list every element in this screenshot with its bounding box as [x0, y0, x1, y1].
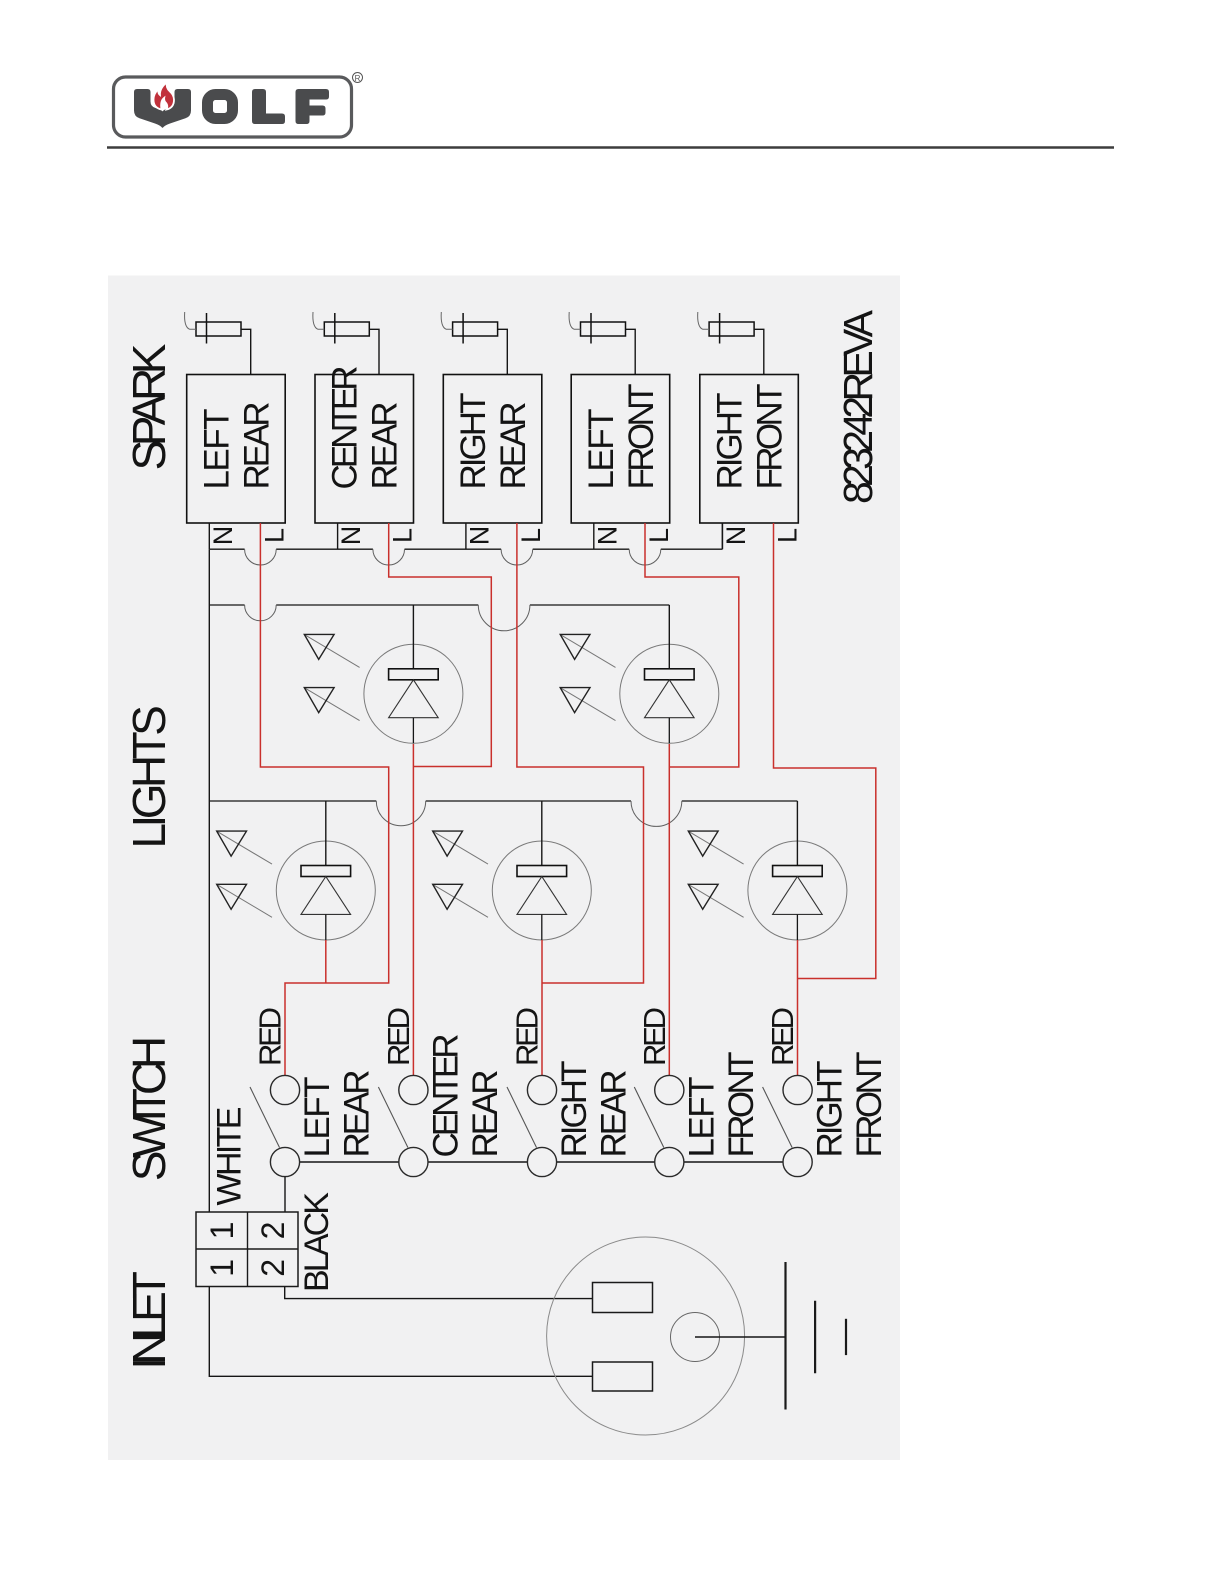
- switch RIGHT REAR lever: [507, 1087, 537, 1148]
- lamp LEFT FRONT bottom lead: [668, 718, 670, 744]
- spark electrode igniter LEFT FRONT: [569, 312, 625, 344]
- spark module box CENTER REAR: [315, 375, 414, 524]
- svg-text:WHITE: WHITE: [211, 1107, 249, 1206]
- lamp LEFT FRONT triangle element: [645, 680, 695, 718]
- lamp LEFT REAR bottom lead: [325, 914, 327, 940]
- svg-text:N: N: [336, 526, 366, 546]
- switch CENTER REAR top contact: [399, 1075, 428, 1104]
- svg-text:FRONT: FRONT: [622, 384, 661, 490]
- indicator lamp RIGHT FRONT envelope circle: [748, 841, 847, 940]
- wire hop on spark neutral bus at x=516.9: [501, 549, 533, 565]
- switch CENTER REAR lever: [378, 1087, 408, 1148]
- lamp RIGHT REAR light-emission arrow 2: [433, 884, 488, 917]
- terminal N stub RIGHT FRONT: [721, 523, 723, 549]
- red lamp-to-switch wire RIGHT FRONT: [797, 940, 799, 1075]
- schematic panel: [108, 276, 900, 1461]
- svg-text:RED: RED: [765, 1007, 800, 1066]
- svg-text:N: N: [592, 526, 622, 546]
- ground wire: [695, 1336, 786, 1338]
- wire hop on spark neutral bus at x=260.4: [245, 549, 277, 565]
- lamp CENTER REAR triangle element: [389, 680, 439, 718]
- wolf logo O letter: [208, 95, 233, 119]
- lamp RIGHT FRONT neutral feed wire: [796, 801, 798, 866]
- spark module box RIGHT REAR: [443, 375, 542, 524]
- lamp LEFT FRONT electrode plate: [645, 669, 695, 680]
- registered trademark symbol: [353, 73, 363, 84]
- switch RIGHT REAR bottom contact: [527, 1147, 556, 1176]
- switch LEFT FRONT top contact: [655, 1075, 684, 1104]
- svg-text:REAR: REAR: [237, 402, 276, 490]
- svg-text:L: L: [516, 528, 546, 543]
- lamp LEFT REAR electrode plate: [301, 866, 351, 877]
- wolf logo L letter: [252, 89, 285, 124]
- lamp RIGHT FRONT electrode plate: [773, 866, 823, 877]
- svg-text:CENTER: CENTER: [426, 1034, 465, 1158]
- svg-text:N: N: [208, 526, 238, 546]
- switch bottom common bus: [285, 1161, 798, 1163]
- svg-text:LEFT: LEFT: [582, 409, 621, 490]
- wire from electrode to module RIGHT FRONT: [754, 329, 764, 374]
- svg-text:N: N: [464, 526, 494, 546]
- svg-text:L: L: [772, 528, 802, 543]
- inlet neutral prong: [593, 1362, 653, 1391]
- red wire net LEFT FRONT: module L to switch 4: [645, 523, 739, 767]
- neutral bus for lower lamp row: [209, 800, 797, 802]
- inlet ground pin: [671, 1313, 720, 1362]
- switch LEFT REAR lever: [250, 1087, 280, 1148]
- red lamp-to-switch wire RIGHT REAR: [541, 940, 543, 1075]
- svg-text:REAR: REAR: [466, 1070, 505, 1158]
- svg-text:REAR: REAR: [494, 402, 533, 490]
- wire from electrode to module CENTER REAR: [369, 329, 379, 374]
- lamp LEFT FRONT light-emission arrow 2: [560, 688, 615, 721]
- lamp LEFT REAR light-emission arrow 2: [217, 884, 272, 917]
- svg-text:L: L: [644, 528, 674, 543]
- svg-text:RIGHT: RIGHT: [811, 1061, 850, 1158]
- ground symbol bar 1: [784, 1262, 786, 1410]
- switch RIGHT FRONT bottom contact: [783, 1147, 812, 1176]
- svg-text:SPARK: SPARK: [123, 343, 175, 470]
- wire switch 1 to terminal block: [284, 1177, 286, 1212]
- header rule: [107, 146, 1114, 149]
- switch CENTER REAR bottom contact: [399, 1147, 428, 1176]
- svg-text:N: N: [721, 526, 751, 546]
- svg-text:CENTER: CENTER: [326, 366, 365, 490]
- inlet plug body circle: [547, 1237, 745, 1435]
- svg-text:L: L: [388, 528, 418, 543]
- neutral bus for upper lamp row: [209, 604, 669, 606]
- spark electrode igniter RIGHT REAR: [441, 312, 497, 344]
- lamp RIGHT FRONT bottom lead: [796, 914, 798, 940]
- lamp CENTER REAR light-emission arrow 2: [304, 688, 359, 721]
- wire from electrode to module LEFT REAR: [241, 329, 251, 374]
- black line wire terminal block to inlet: [285, 1287, 593, 1299]
- svg-text:RED: RED: [510, 1007, 545, 1066]
- svg-text:R: R: [355, 74, 361, 83]
- red wire net RIGHT FRONT: module L to switch 5: [774, 523, 876, 979]
- terminal block horizontal divider: [196, 1248, 298, 1250]
- switch RIGHT REAR top contact: [527, 1075, 556, 1104]
- red wire net LEFT REAR: module L to switch 1 and lamp: [260, 523, 388, 1075]
- wire from electrode to module RIGHT REAR: [498, 329, 508, 374]
- lamp RIGHT FRONT light-emission arrow 1: [688, 831, 743, 864]
- wolf logo box: [114, 77, 352, 137]
- wire hop on spark neutral bus at x=388.7: [373, 549, 405, 565]
- svg-text:823242REVA: 823242REVA: [835, 309, 881, 504]
- lamp LEFT FRONT neutral feed wire: [668, 605, 670, 669]
- lamp RIGHT REAR triangle element: [517, 877, 567, 915]
- red wire net CENTER REAR: module L to switch 2: [389, 523, 492, 767]
- wire hop on upper lamp bus at x=260.4: [245, 605, 277, 621]
- spark module box LEFT REAR: [187, 375, 286, 524]
- svg-text:LEFT: LEFT: [682, 1077, 721, 1158]
- red wire net RIGHT REAR: module L to switch 3: [517, 523, 644, 983]
- terminal block vertical divider: [247, 1212, 249, 1287]
- svg-text:INLET: INLET: [123, 1271, 175, 1370]
- lamp RIGHT REAR bottom lead: [541, 914, 543, 940]
- svg-text:RED: RED: [253, 1007, 288, 1066]
- svg-text:LIGHTS: LIGHTS: [123, 705, 175, 848]
- lamp RIGHT REAR electrode plate: [517, 866, 567, 877]
- lamp RIGHT REAR light-emission arrow 1: [433, 831, 488, 864]
- switch LEFT FRONT lever: [634, 1087, 664, 1148]
- wire hop on lower lamp bus at x=656.4: [631, 801, 682, 826]
- red lamp drop LEFT REAR: [325, 940, 327, 983]
- svg-text:1: 1: [204, 1259, 240, 1277]
- svg-text:SWITCH: SWITCH: [123, 1036, 175, 1181]
- svg-text:FRONT: FRONT: [722, 1052, 761, 1158]
- wire hop on lower lamp bus at x=401: [376, 801, 425, 826]
- switch LEFT REAR top contact: [270, 1075, 299, 1104]
- wire from electrode to module LEFT FRONT: [626, 329, 636, 374]
- terminal N stub CENTER REAR: [337, 523, 339, 549]
- ground symbol bar 2: [814, 1301, 816, 1374]
- indicator lamp LEFT FRONT envelope circle: [620, 644, 719, 743]
- svg-text:L: L: [259, 528, 289, 543]
- switch LEFT REAR bottom contact: [270, 1147, 299, 1176]
- terminal N stub LEFT FRONT: [593, 523, 595, 549]
- lamp CENTER REAR electrode plate: [389, 669, 439, 680]
- lamp LEFT REAR light-emission arrow 1: [217, 831, 272, 864]
- lamp LEFT FRONT light-emission arrow 1: [560, 634, 615, 667]
- svg-text:BLACK: BLACK: [298, 1192, 336, 1292]
- svg-text:RED: RED: [637, 1007, 672, 1066]
- indicator lamp LEFT REAR envelope circle: [276, 841, 375, 940]
- lamp CENTER REAR bottom lead: [412, 718, 414, 744]
- spark electrode igniter LEFT REAR: [185, 312, 241, 344]
- switch RIGHT FRONT top contact: [783, 1075, 812, 1104]
- spark module box LEFT FRONT: [571, 375, 670, 524]
- indicator lamp CENTER REAR envelope circle: [364, 644, 463, 743]
- svg-text:LEFT: LEFT: [298, 1077, 337, 1158]
- terminal N stub RIGHT REAR: [465, 523, 467, 549]
- neutral bus for spark modules: [209, 548, 722, 550]
- spark module box RIGHT FRONT: [700, 375, 799, 524]
- wire hop on spark neutral bus at x=645: [629, 549, 661, 565]
- svg-text:2: 2: [255, 1222, 291, 1240]
- wire hop on upper lamp bus at x=504.1: [478, 605, 530, 631]
- ground symbol bar 3: [845, 1319, 847, 1355]
- wolf logo W glyph with flame: [134, 82, 191, 128]
- neutral bus stub to RIGHT FRONT module N: [721, 523, 723, 549]
- svg-text:RED: RED: [381, 1007, 416, 1066]
- svg-text:RIGHT: RIGHT: [711, 393, 750, 490]
- red lamp-to-switch wire CENTER REAR: [412, 744, 414, 1075]
- indicator lamp RIGHT REAR envelope circle: [492, 841, 591, 940]
- neutral trunk white wire down left side to inlet: [209, 549, 592, 1376]
- wolf logo F letter: [296, 89, 330, 124]
- switch RIGHT FRONT lever: [763, 1087, 793, 1148]
- svg-text:RIGHT: RIGHT: [454, 393, 493, 490]
- lamp RIGHT FRONT triangle element: [773, 877, 823, 915]
- svg-text:1: 1: [204, 1222, 240, 1240]
- svg-text:LEFT: LEFT: [197, 409, 236, 490]
- red lamp-to-switch wire LEFT FRONT: [668, 744, 670, 1075]
- terminal N stub LEFT REAR: [208, 523, 210, 549]
- spark electrode igniter RIGHT FRONT: [698, 312, 754, 344]
- svg-text:FRONT: FRONT: [850, 1052, 889, 1158]
- inlet line prong: [593, 1283, 653, 1313]
- switch LEFT FRONT bottom contact: [655, 1147, 684, 1176]
- lamp LEFT REAR neutral feed wire: [325, 801, 327, 866]
- lamp RIGHT FRONT light-emission arrow 2: [688, 884, 743, 917]
- lamp CENTER REAR light-emission arrow 1: [304, 634, 359, 667]
- svg-text:REAR: REAR: [338, 1070, 377, 1158]
- lamp RIGHT REAR neutral feed wire: [541, 801, 543, 866]
- svg-text:REAR: REAR: [366, 402, 405, 490]
- spark electrode igniter CENTER REAR: [313, 312, 369, 344]
- svg-text:RIGHT: RIGHT: [555, 1061, 594, 1158]
- terminal block outline: [196, 1212, 298, 1287]
- svg-text:2: 2: [255, 1259, 291, 1277]
- svg-text:FRONT: FRONT: [750, 384, 789, 490]
- svg-text:REAR: REAR: [595, 1070, 634, 1158]
- lamp CENTER REAR neutral feed wire: [412, 605, 414, 669]
- lamp LEFT REAR triangle element: [301, 877, 351, 915]
